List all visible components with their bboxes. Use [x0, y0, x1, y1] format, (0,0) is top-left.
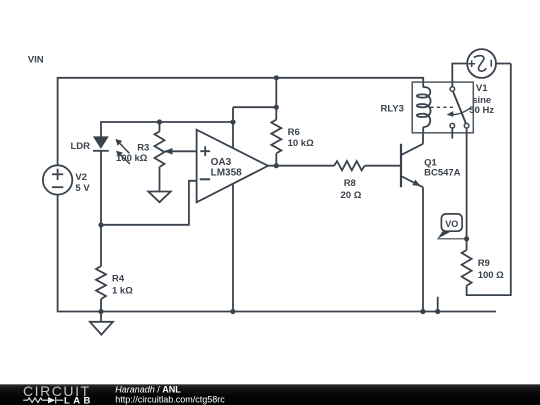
- svg-text:5 V: 5 V: [75, 183, 90, 194]
- svg-text:BC547A: BC547A: [424, 168, 461, 179]
- svg-text:http://circuitlab.com/ctg58rc: http://circuitlab.com/ctg58rc: [115, 394, 225, 404]
- svg-text:RLY3: RLY3: [381, 103, 404, 114]
- svg-text:OA3: OA3: [211, 157, 232, 168]
- svg-text:R9: R9: [478, 258, 490, 269]
- svg-text:R8: R8: [344, 178, 356, 189]
- svg-text:1 kΩ: 1 kΩ: [112, 286, 133, 297]
- svg-text:Haranadh / ANL: Haranadh / ANL: [115, 385, 181, 395]
- svg-text:R6: R6: [288, 127, 300, 138]
- svg-text:VIN: VIN: [28, 54, 44, 65]
- svg-text:R4: R4: [112, 274, 125, 285]
- svg-text:R3: R3: [137, 143, 149, 154]
- svg-text:V1: V1: [476, 83, 488, 94]
- svg-text:50 Hz: 50 Hz: [469, 105, 494, 116]
- svg-text:LAB: LAB: [64, 395, 94, 405]
- svg-text:LDR: LDR: [71, 141, 91, 152]
- svg-text:100 Ω: 100 Ω: [478, 270, 504, 281]
- svg-text:V2: V2: [75, 172, 87, 183]
- svg-text:20 Ω: 20 Ω: [341, 190, 362, 201]
- svg-text:VO: VO: [445, 219, 458, 229]
- svg-text:10 kΩ: 10 kΩ: [288, 138, 314, 149]
- svg-text:100 kΩ: 100 kΩ: [116, 153, 148, 164]
- svg-text:LM358: LM358: [211, 168, 243, 179]
